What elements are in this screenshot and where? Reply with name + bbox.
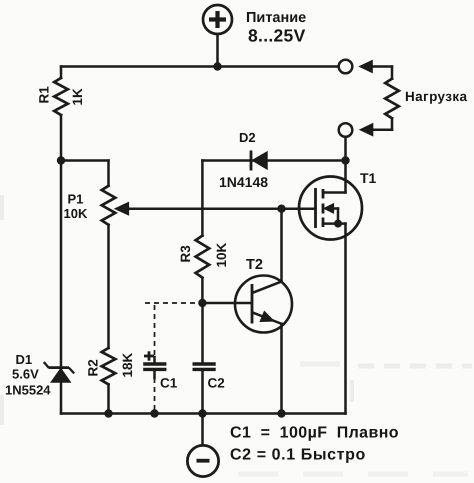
- svg-text:10K: 10K: [214, 242, 229, 267]
- svg-text:D2: D2: [239, 130, 256, 145]
- svg-text:18K: 18K: [120, 352, 135, 377]
- svg-text:5.6V: 5.6V: [12, 367, 39, 382]
- svg-text:R3: R3: [178, 245, 193, 263]
- svg-text:Нагрузка: Нагрузка: [405, 89, 468, 104]
- svg-text:8...25V: 8...25V: [248, 25, 306, 45]
- svg-text:1K: 1K: [70, 88, 85, 106]
- svg-text:C1: C1: [160, 376, 178, 391]
- svg-text:P1: P1: [68, 192, 84, 207]
- svg-text:Питание: Питание: [246, 10, 306, 26]
- svg-text:10K: 10K: [64, 206, 88, 221]
- svg-text:T2: T2: [246, 257, 263, 273]
- svg-text:C2 = 0.1 Быстро: C2 = 0.1 Быстро: [230, 447, 366, 464]
- svg-text:T1: T1: [360, 170, 377, 186]
- svg-text:C2: C2: [208, 376, 225, 391]
- svg-text:D1: D1: [16, 352, 33, 367]
- svg-text:1N5524: 1N5524: [5, 383, 51, 398]
- svg-text:1N4148: 1N4148: [219, 174, 268, 190]
- svg-text:R2: R2: [86, 359, 101, 376]
- svg-text:C1 = 100µF Плавно: C1 = 100µF Плавно: [230, 424, 399, 441]
- svg-text:R1: R1: [37, 86, 52, 104]
